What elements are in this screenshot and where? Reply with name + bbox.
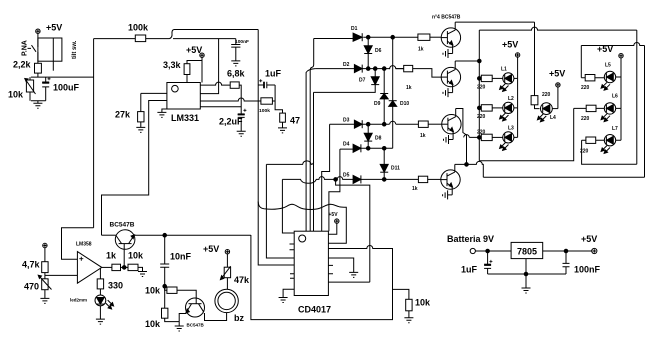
ground below 47 xyxy=(278,128,287,133)
svg-text:220: 220 xyxy=(581,85,590,91)
resistor 3,3k xyxy=(163,60,202,83)
wire row2 xyxy=(315,68,404,70)
svg-text:LM358: LM358 xyxy=(76,242,92,248)
ground at Q2 emitter (sideways) xyxy=(443,88,453,97)
svg-text:led2mm: led2mm xyxy=(70,298,87,303)
svg-text:100nF: 100nF xyxy=(574,265,601,275)
svg-text:D9: D9 xyxy=(374,101,381,107)
LED L1 xyxy=(500,67,518,92)
wire Q3 collector jog down to dot xyxy=(456,109,467,161)
svg-text:4,7k: 4,7k xyxy=(22,260,41,270)
potentiometer 470 xyxy=(24,275,52,298)
wire Q1 collector top to L4 column xyxy=(455,21,534,23)
ground at Q4 emitter (sideways) xyxy=(443,190,453,199)
svg-text:2,2uF: 2,2uF xyxy=(219,117,243,127)
wire A from pin to D7 column xyxy=(266,161,313,165)
power +5V output xyxy=(581,234,597,254)
svg-text:LM331: LM331 xyxy=(171,113,199,123)
power +5V mini above 4,7k xyxy=(43,243,47,261)
diode D2 xyxy=(343,62,362,73)
wire row5 left column down to CD4017 pin xyxy=(282,179,294,233)
resistor 100k xyxy=(128,23,149,42)
svg-text:BC547B: BC547B xyxy=(110,222,135,229)
junction dot 100nF tap xyxy=(564,249,568,253)
resistor 330 xyxy=(97,279,123,295)
svg-text:+5V: +5V xyxy=(203,244,219,254)
svg-text:L6: L6 xyxy=(612,94,618,100)
resistor 220 L5 xyxy=(581,75,604,92)
wire row4 left column jog to CD4017 xyxy=(329,149,340,231)
capacitor 2,2uF electrolytic xyxy=(219,109,246,131)
resistor 6,8k xyxy=(227,69,246,89)
svg-text:P.NA: P.NA xyxy=(22,40,29,56)
resistor 220 L2 xyxy=(477,105,503,120)
wire 1k row5 to Q4 base xyxy=(428,178,441,180)
wire Fout horizontal y101 with hop at x242.8 xyxy=(200,98,261,101)
svg-text:100k: 100k xyxy=(128,23,149,33)
resistor 10k pulldown xyxy=(128,251,144,271)
transistor Q5 BC547B rotated xyxy=(110,222,135,268)
wire group D right edge xyxy=(644,46,646,178)
ground power supply xyxy=(522,288,531,293)
junction dot 10nF xyxy=(163,233,167,237)
wire row1 xyxy=(314,37,418,38)
resistor 1k row1 xyxy=(418,34,430,53)
junction dot below 10nF xyxy=(163,284,167,288)
capacitor 1uF xyxy=(258,69,281,89)
wire lower right horizontal to group D feed xyxy=(483,176,644,178)
power +5V group A xyxy=(502,40,520,79)
wire Q1->L4 vertical xyxy=(534,22,536,96)
diode D1 xyxy=(351,26,362,41)
wire 1uF right down to 47 xyxy=(275,85,282,113)
svg-text:D10: D10 xyxy=(400,101,409,107)
svg-text:47k: 47k xyxy=(234,275,250,285)
diode D9 xyxy=(374,69,388,123)
svg-text:L7: L7 xyxy=(612,126,618,132)
svg-text:220: 220 xyxy=(581,116,590,122)
svg-text:D3: D3 xyxy=(343,118,350,124)
wire 1k row2 to Q2 base jog xyxy=(413,69,442,78)
svg-text:+5V: +5V xyxy=(597,44,613,54)
LED led2mm xyxy=(70,295,114,319)
junction dots row4 xyxy=(366,147,370,151)
wire vertical x258 from line1 to clock xyxy=(258,30,294,266)
junction dot row1 D10 column xyxy=(391,35,395,39)
wire clock wavy from LM331 xyxy=(258,202,346,244)
wire group D top edge with hop over line2 drop xyxy=(581,43,644,46)
svg-text:100nF: 100nF xyxy=(235,39,249,44)
power +5V buzzer xyxy=(203,244,230,267)
svg-text:100uF: 100uF xyxy=(53,83,80,93)
junction dots row3 xyxy=(366,122,370,126)
LED L2 xyxy=(500,78,518,121)
wire LM331 pin D to 2,2uF node xyxy=(200,106,241,108)
svg-text:220: 220 xyxy=(477,130,486,136)
resistor 1k row2 xyxy=(404,65,413,91)
wire CD4017 ground pin xyxy=(328,258,353,272)
transistor Q3 BC547B xyxy=(442,109,461,140)
svg-text:10k: 10k xyxy=(8,90,24,100)
junction dots bus A at LED rows xyxy=(478,77,482,81)
svg-text:1k: 1k xyxy=(412,186,418,192)
svg-text:L3: L3 xyxy=(508,126,514,132)
resistor 4,7k xyxy=(22,260,48,273)
ground below pot/cap xyxy=(31,101,46,109)
resistor 1k xyxy=(106,251,121,271)
wire 10k branch xyxy=(393,289,409,299)
power +5V L4 xyxy=(549,69,565,109)
svg-text:10k: 10k xyxy=(128,251,144,261)
wire Q2 collector to bus A xyxy=(455,60,479,62)
wire op-amp output node xyxy=(102,266,112,268)
svg-text:47: 47 xyxy=(290,116,300,126)
wire loop right side with hop xyxy=(251,235,393,320)
resistor 10k CD4017 xyxy=(406,298,431,318)
wire L7 220 left loop to line2 drop xyxy=(582,140,637,164)
LED L5 xyxy=(601,63,621,91)
wire from +5V down xyxy=(37,33,39,45)
counter chip CD4017 xyxy=(294,231,331,314)
svg-text:D6: D6 xyxy=(375,48,382,54)
svg-text:D4: D4 xyxy=(343,142,350,148)
wire line2 drop down inside group D xyxy=(636,30,638,164)
ground CD4017 right xyxy=(349,272,358,277)
svg-text:L2: L2 xyxy=(508,96,514,102)
resistor 220 L7 xyxy=(580,137,604,155)
wire row4 xyxy=(340,147,393,150)
svg-text:+5V: +5V xyxy=(502,40,518,50)
svg-text:220: 220 xyxy=(477,114,486,120)
wire Q6 collector to buzzer xyxy=(204,313,227,321)
wire 7805 out to +5V xyxy=(543,250,592,252)
resistor 220 L4 xyxy=(531,92,550,109)
transistor Q4 BC547B xyxy=(441,164,460,195)
wire bus A vertical xyxy=(478,30,480,161)
regulator 7805 xyxy=(511,242,543,258)
capacitor 100nF top xyxy=(231,39,249,61)
ground CD4017 bottom-left xyxy=(279,298,288,303)
diode D4 xyxy=(343,142,361,153)
svg-text:220: 220 xyxy=(477,85,486,91)
ground below 100nF xyxy=(231,61,240,66)
svg-text:2,2k: 2,2k xyxy=(13,60,32,70)
power +5V CD4017 xyxy=(328,212,339,234)
wire battery to 7805 xyxy=(475,250,511,252)
svg-text:10k: 10k xyxy=(415,298,431,308)
transistor Q2 BC547B xyxy=(441,61,460,93)
diode D5 xyxy=(343,173,361,184)
svg-text:1k: 1k xyxy=(106,251,117,261)
buzzer bz xyxy=(215,289,245,323)
ground below led2mm xyxy=(96,319,105,324)
svg-text:Batteria 9V: Batteria 9V xyxy=(447,234,494,244)
resistor 100k small xyxy=(259,98,272,113)
diode D11 xyxy=(380,148,400,179)
capacitor 100nF output xyxy=(563,251,601,275)
svg-text:3,3k: 3,3k xyxy=(163,60,182,70)
svg-text:220: 220 xyxy=(542,92,551,98)
resistor 220 L1 xyxy=(477,75,503,90)
node junction row y77 xyxy=(31,76,94,78)
wire row3 xyxy=(330,123,390,125)
resistor 220 L6 xyxy=(574,105,605,122)
wire 1k row3 to Q3 base xyxy=(428,123,442,125)
tilt switch box xyxy=(38,38,78,71)
ground below 27k xyxy=(136,127,145,132)
svg-text:BC547B: BC547B xyxy=(187,323,205,328)
svg-text:D7: D7 xyxy=(359,78,366,84)
svg-text:10k: 10k xyxy=(145,319,161,329)
LED L4 xyxy=(537,103,558,122)
svg-text:1uF: 1uF xyxy=(265,69,282,79)
pushbutton P.NA xyxy=(22,40,38,63)
resistor 10k to Q6 base xyxy=(145,286,196,299)
ground at Q3 emitter (sideways) xyxy=(444,135,454,144)
wire line2 to 100nF xyxy=(173,38,236,40)
junction dot 1uF tap xyxy=(486,249,490,253)
wire Q5 emitter right to loop xyxy=(134,234,251,236)
resistor 2,2k xyxy=(13,60,41,78)
junction dot row1 D6 xyxy=(366,35,370,39)
ground below 10k xyxy=(404,318,413,323)
svg-text:L5: L5 xyxy=(605,63,611,69)
svg-text:tilt sw.: tilt sw. xyxy=(72,40,78,59)
junction dots row2 xyxy=(366,67,370,71)
wire bottom rail xyxy=(488,273,566,275)
svg-text:D8: D8 xyxy=(375,136,382,142)
capacitor 10nF xyxy=(160,235,191,286)
diode D8 xyxy=(364,124,381,148)
wire bus A top corner to line2 right with hop at x534.5 xyxy=(479,27,637,30)
wire pin A to 6,8k with hop xyxy=(200,82,230,85)
wire row5 with dips xyxy=(282,177,353,184)
ground shared Q6 emitter xyxy=(175,322,184,331)
wire Q6 emitter to ground xyxy=(179,314,186,322)
svg-text:L1: L1 xyxy=(501,67,507,73)
wire 7805 gnd pin xyxy=(525,259,527,288)
transistor Q6 BC547B rotated xyxy=(186,298,205,328)
CD4017 left pin stubs xyxy=(290,244,295,278)
transistor Q1 BC547B xyxy=(441,22,460,53)
diode D10 xyxy=(389,37,410,121)
wire D7 jog column xyxy=(314,89,376,232)
CD4017 right short stubs xyxy=(328,265,333,273)
power +5V group D xyxy=(597,44,623,77)
svg-text:1k: 1k xyxy=(418,47,424,53)
svg-text:CD4017: CD4017 xyxy=(298,305,331,315)
svg-text:100k: 100k xyxy=(259,108,271,113)
ground at Q1 emitter (sideways) xyxy=(443,49,453,58)
LED L7 xyxy=(601,108,621,153)
svg-text:10nF: 10nF xyxy=(170,252,192,262)
resistor 1k row5 xyxy=(412,176,428,192)
wire 100k-box right stub xyxy=(272,100,275,102)
potentiometer 10k xyxy=(8,77,36,101)
wire CD4017 pin to matrix column xyxy=(328,281,369,283)
wire Q5 collector from left xyxy=(102,234,116,236)
op-amp LM358 xyxy=(76,242,102,284)
wire vertical bus left x93.6 xyxy=(93,39,95,228)
ground after 10k xyxy=(138,267,147,276)
power +5V supply symbol top-left xyxy=(36,23,63,34)
wire group D left edge to L5 xyxy=(580,46,582,78)
svg-text:1k: 1k xyxy=(406,85,412,91)
svg-text:+5V: +5V xyxy=(46,23,62,33)
svg-text:330: 330 xyxy=(108,281,123,291)
svg-text:D2: D2 xyxy=(343,62,350,68)
wire CD4017 pin to ground bottom-left xyxy=(283,289,294,297)
hop L3 row over Q3 collector line xyxy=(464,135,480,138)
wire D10 column bottom to row4 xyxy=(392,121,394,148)
junction dot row5 D11 xyxy=(382,178,386,182)
ground below 470 xyxy=(40,298,49,303)
resistor 220 L3 xyxy=(477,130,503,141)
battery terminal Batteria 9V xyxy=(447,234,494,254)
svg-text:D11: D11 xyxy=(391,166,400,172)
wire jog up to line1 xyxy=(170,30,175,39)
svg-text:470: 470 xyxy=(24,282,39,292)
svg-text:1uF: 1uF xyxy=(461,265,478,275)
svg-text:bz: bz xyxy=(234,313,244,323)
capacitor 100uF electrolytic xyxy=(42,77,79,101)
resistor 27k xyxy=(115,93,144,127)
wire LM331 pin2 left-down long xyxy=(102,101,167,236)
svg-text:7805: 7805 xyxy=(517,247,537,257)
power +5V at LM331 xyxy=(186,45,204,83)
wire 100k feed xyxy=(94,38,136,40)
svg-text:n°4 BC547B: n°4 BC547B xyxy=(432,15,461,21)
wire row5 tap to CD4017 pin xyxy=(336,179,370,282)
resistor 47 xyxy=(280,113,300,128)
wire 1k to 10k junction xyxy=(121,266,129,268)
wire row1 feed vertical with jog xyxy=(310,39,314,232)
LED L3 xyxy=(500,108,518,150)
resistor 10k vertical to ground xyxy=(145,286,179,329)
wire 6,8k to 2,2uF down xyxy=(239,85,241,114)
svg-text:+5V: +5V xyxy=(329,212,339,218)
svg-text:1k: 1k xyxy=(420,133,426,139)
svg-text:D1: D1 xyxy=(351,26,358,32)
capacitor 1uF input xyxy=(461,251,492,275)
wire 1k to Q1 base xyxy=(430,36,442,38)
wire Q4 collector row with junction dot and hop over bus A xyxy=(455,161,484,177)
svg-text:D5: D5 xyxy=(343,173,350,179)
svg-text:+5V: +5V xyxy=(581,234,597,244)
diode D3 xyxy=(343,118,362,129)
wire junction to op-amp minus input xyxy=(45,273,78,279)
wire row2 left end down column xyxy=(306,69,315,232)
diode D7 xyxy=(359,69,379,89)
svg-text:+5V: +5V xyxy=(549,69,565,79)
hop row3 over D10 column xyxy=(390,121,396,124)
ground at LM331 bottom-left xyxy=(157,109,167,117)
LED L6 xyxy=(601,77,621,122)
ground below 2,2uF xyxy=(237,131,246,136)
wire LM331 right pin up to line2 (hops pin A) xyxy=(200,39,218,94)
wire LM331 pin to 27k xyxy=(141,92,167,94)
wire 330 branch down from output xyxy=(99,268,101,279)
svg-text:+5V: +5V xyxy=(186,45,202,55)
op-amp chip LM331 xyxy=(167,83,200,124)
svg-text:27k: 27k xyxy=(115,110,131,120)
diode D6 xyxy=(364,37,381,68)
wire bus left to op-amp plus input xyxy=(62,228,94,259)
wire bus A bottom to L6 feed xyxy=(479,108,573,160)
wire row3 left column jog to CD4017 xyxy=(322,124,330,231)
svg-text:10k: 10k xyxy=(145,286,161,296)
svg-text:6,8k: 6,8k xyxy=(227,69,246,79)
wire line1 top to x258 xyxy=(174,29,258,31)
svg-text:L4: L4 xyxy=(550,115,556,121)
hop row2 over D10 column xyxy=(390,66,396,69)
potentiometer 47k xyxy=(220,266,250,289)
wire from 100k to jog xyxy=(146,38,170,40)
resistor 1k row3 xyxy=(418,121,428,139)
